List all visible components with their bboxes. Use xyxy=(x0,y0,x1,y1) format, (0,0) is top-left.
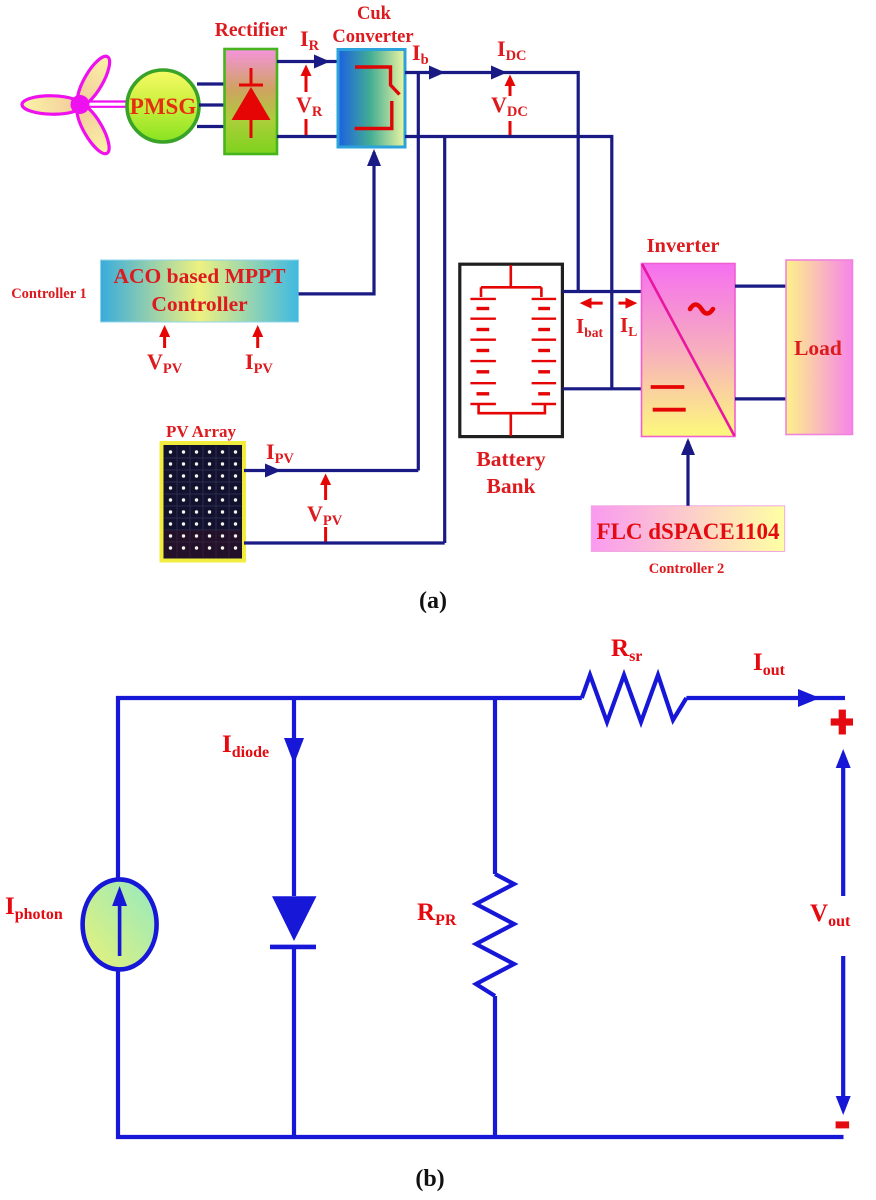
label VPV on wire xyxy=(307,501,343,529)
wind turbine hub xyxy=(71,95,90,114)
arrow VPV into MPPT xyxy=(159,325,170,348)
wire stub VR to bottom wire (red) xyxy=(305,119,308,138)
label VPV xyxy=(147,349,183,377)
wind turbine blade up xyxy=(72,52,116,110)
label Ibat xyxy=(576,314,603,340)
label IDC xyxy=(497,36,527,64)
wire PMSG phase C xyxy=(197,125,225,128)
rectifier block xyxy=(215,20,288,154)
label IPV on wire xyxy=(266,439,294,467)
label Controller 1 xyxy=(11,286,87,302)
wire battery to inverter bottom xyxy=(562,387,642,390)
svg-text:FLC dSPACE1104: FLC dSPACE1104 xyxy=(597,519,780,544)
label Controller 2 xyxy=(649,561,725,577)
plus terminal xyxy=(831,710,853,735)
current source Iphoton xyxy=(83,879,157,969)
svg-text:PV Array: PV Array xyxy=(166,422,237,441)
arrow VPV node (red) xyxy=(320,474,331,501)
DC bars symbol xyxy=(651,387,686,410)
svg-text:(b): (b) xyxy=(415,1166,444,1192)
label VDC xyxy=(491,92,528,120)
wire inverter to load top xyxy=(735,285,786,288)
arrow VR (red, up) xyxy=(301,65,312,93)
svg-text:Bank: Bank xyxy=(486,474,535,498)
wire stub VDC (red) xyxy=(509,121,512,136)
PV array panel xyxy=(162,422,245,561)
label Rsr xyxy=(611,635,642,665)
arrow IDC on top bus xyxy=(491,66,507,80)
wire top rail fig b xyxy=(118,698,582,880)
svg-text:Converter: Converter xyxy=(332,27,413,47)
label Ib xyxy=(412,40,429,68)
caption (a) xyxy=(419,588,447,614)
caption (b) xyxy=(415,1166,444,1192)
diode D1 inside rectifier xyxy=(232,68,271,138)
AC tilde symbol xyxy=(690,305,713,314)
wire Cuk to DC bus top with Ib arrow xyxy=(405,66,578,292)
load block xyxy=(786,260,853,435)
svg-text:Load: Load xyxy=(794,336,842,360)
wire Rsr to output with Iout arrow xyxy=(686,689,845,707)
svg-text:Controller: Controller xyxy=(151,292,248,316)
wind turbine shaft xyxy=(84,102,128,107)
arrow IPV into MPPT xyxy=(252,325,263,348)
svg-text:ACO based MPPT: ACO based MPPT xyxy=(114,264,287,288)
wire Cuk to bus bottom xyxy=(405,137,612,389)
arrow IL (red, right) xyxy=(619,298,638,309)
label IR xyxy=(300,26,320,54)
svg-text:Controller 2: Controller 2 xyxy=(649,561,725,577)
battery cells symbol xyxy=(470,265,556,436)
wire diode branch top with Idiode arrow xyxy=(284,698,304,896)
svg-text:Controller 1: Controller 1 xyxy=(11,286,87,302)
svg-text:PMSG: PMSG xyxy=(130,94,197,119)
wire source bottom xyxy=(116,968,120,1139)
svg-text:Rectifier: Rectifier xyxy=(215,20,288,41)
wire diode branch bottom xyxy=(292,947,296,1137)
wind turbine blade down xyxy=(71,100,115,158)
wind turbine blade left xyxy=(22,95,82,114)
wire PMSG phase B xyxy=(199,103,225,106)
label IPV xyxy=(245,349,273,377)
diode symbol xyxy=(270,896,317,947)
label IL xyxy=(620,313,637,339)
wire PMSG phase A xyxy=(197,82,225,85)
wire PV array bottom xyxy=(244,541,445,544)
arrow Vout (double headed) xyxy=(836,749,851,1115)
label Vout xyxy=(810,900,851,930)
wire branch to PV current node xyxy=(417,73,420,471)
Cuk converter block xyxy=(332,4,413,147)
wire MPPT to Cuk with arrow up xyxy=(299,149,382,294)
arrow Ibat (red, left) xyxy=(580,298,603,309)
wire RPR branch top xyxy=(493,698,497,874)
wire rectifier to Cuk bottom xyxy=(277,135,338,138)
FLC controller block xyxy=(591,506,784,552)
resistor RPR xyxy=(476,874,514,996)
inverter block xyxy=(642,235,736,437)
MPPT controller block xyxy=(101,260,299,322)
svg-text:(a): (a) xyxy=(419,588,447,614)
switch symbol inside Cuk xyxy=(355,67,400,129)
minus terminal xyxy=(836,1121,850,1128)
wire inverter to load bottom xyxy=(735,397,786,400)
wire battery to inverter top xyxy=(562,290,642,293)
wire FLC to inverter with arrow up xyxy=(681,438,695,506)
wire PV array IPV output with arrow xyxy=(244,464,418,478)
label Idiode xyxy=(222,731,269,761)
battery bank box xyxy=(460,264,563,498)
label RPR xyxy=(417,899,457,929)
wire branch to PV voltage node xyxy=(443,137,446,544)
label Iphoton xyxy=(5,893,63,923)
svg-text:Cuk: Cuk xyxy=(357,4,392,24)
arrow VDC (red, up) xyxy=(505,75,516,97)
wire stub VPV (red) xyxy=(324,527,327,544)
svg-text:Battery: Battery xyxy=(476,447,545,471)
wire bottom rail fig b xyxy=(116,1135,844,1139)
svg-text:Inverter: Inverter xyxy=(647,235,720,257)
generator PMSG xyxy=(127,70,199,142)
wire rectifier to Cuk top with arrow xyxy=(277,55,338,69)
wire RPR branch bottom xyxy=(493,996,497,1137)
label Iout xyxy=(753,649,786,679)
resistor Rsr xyxy=(582,675,687,722)
label VR xyxy=(296,92,323,120)
